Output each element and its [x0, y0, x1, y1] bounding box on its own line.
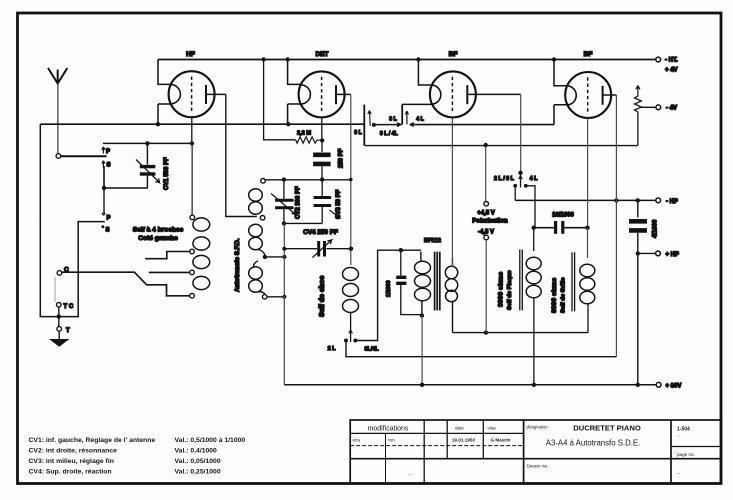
svg-text:3000 ohms: 3000 ohms	[498, 272, 505, 307]
svg-text:- HT.: - HT.	[665, 58, 678, 64]
wire +80V rail	[284, 384, 656, 386]
svg-text:CV4: Sup. droite, réaction: CV4: Sup. droite, réaction	[29, 469, 112, 476]
wire tap2 throw	[149, 271, 190, 273]
svg-text:8000 ohms: 8000 ohms	[551, 278, 558, 313]
svg-text:T: T	[66, 328, 70, 334]
svg-text:3L/4L: 3L/4L	[364, 347, 379, 353]
wire antenna to S contact	[61, 155, 107, 157]
contact S	[102, 161, 111, 169]
svg-text:2,2 M: 2,2 M	[297, 131, 311, 137]
svg-text:BF112: BF112	[424, 238, 441, 244]
terminal -4V	[656, 105, 661, 110]
svg-text:DUCRETET PIANO: DUCRETET PIANO	[573, 424, 641, 433]
svg-text:....: ....	[408, 471, 413, 476]
svg-text:250 PF: 250 PF	[339, 148, 345, 168]
node CV2 bottom junction	[282, 221, 286, 225]
terminal -HT	[656, 57, 661, 62]
terminal T C mid	[57, 303, 74, 317]
svg-text:Autotransfo S.F.D.: Autotransfo S.F.D.	[234, 238, 241, 292]
svg-text:1/1000: 1/1000	[386, 281, 392, 298]
svg-text:Val.: 0,4/1000: Val.: 0,4/1000	[175, 448, 218, 455]
svg-text:+ HP: + HP	[666, 252, 680, 258]
node +HP junction	[636, 251, 640, 255]
wire BF2 plate drop to -HP and HP return	[615, 95, 617, 357]
svg-text:Self de choc: Self de choc	[319, 276, 326, 317]
svg-text:4 L: 4 L	[530, 176, 538, 182]
tube BF2	[554, 51, 616, 125]
contact P lower	[102, 213, 110, 222]
wire tap1 throw	[145, 252, 190, 259]
capacitor CV3 50 PF	[314, 180, 343, 224]
svg-text:BF: BF	[449, 51, 458, 58]
node mid tap / CV2 column junction	[282, 255, 286, 259]
node bias bus junction	[484, 330, 488, 334]
svg-text:10/1000: 10/1000	[552, 213, 574, 219]
wire BF1 plate drop	[520, 94, 522, 172]
wire down to second P contact	[103, 188, 105, 214]
node choke on +80V rail	[532, 383, 536, 387]
svg-text:Dessin no.: Dessin no.	[527, 464, 549, 469]
svg-text:2 L: 2 L	[328, 346, 336, 352]
node BF112 primary bottom junction	[420, 313, 424, 317]
svg-text:P: P	[106, 149, 110, 155]
svg-text:T C: T C	[64, 304, 74, 310]
svg-text:...: ...	[677, 432, 680, 437]
svg-text:+4,5 V: +4,5 V	[477, 211, 495, 217]
svg-text:3 L: 3 L	[354, 130, 362, 136]
node +HP column on +80V rail	[636, 383, 640, 387]
capacitor CV4 250 PF	[284, 229, 351, 258]
svg-text:modifications: modifications	[368, 426, 409, 433]
wire C to switch arm	[62, 272, 190, 296]
svg-text:S: S	[107, 163, 111, 169]
filament switch cluster A	[354, 105, 401, 146]
node BF112 primary on +80V rail	[420, 383, 424, 387]
node CV1 bottom junction	[102, 186, 106, 190]
capacitor CV2 300 PF	[271, 180, 302, 224]
wire filament rail right segment	[410, 124, 555, 126]
node CV4 right junction on DET plate line	[349, 247, 353, 251]
wire S column down to CV1 bottom	[104, 166, 148, 188]
secondary winding	[452, 258, 454, 267]
tube HF	[158, 51, 226, 143]
wire grid-bias bus (y=332.6)	[453, 332, 589, 334]
wire bottom filament rail left segment	[40, 123, 364, 125]
antenna terminal node	[56, 154, 61, 159]
wire HF plate drop	[226, 94, 257, 216]
svg-text:Coté gauche: Coté gauche	[138, 235, 178, 242]
node 2L contact	[344, 339, 348, 343]
core	[435, 252, 440, 311]
tube BF1	[402, 51, 521, 117]
svg-text:Self à 4 broches: Self à 4 broches	[133, 227, 184, 234]
svg-text:4/1000: 4/1000	[653, 219, 659, 238]
wire tuned circuit top (y=179.5)	[266, 179, 351, 181]
node rail dots bottom	[156, 122, 160, 126]
choke 3000 ohms self de plaque	[498, 228, 542, 385]
capacitor CV1 500 PF	[136, 143, 170, 190]
svg-text:CV2: int droite, résonnance: CV2: int droite, résonnance	[29, 448, 118, 455]
svg-text:eza: eza	[353, 438, 361, 443]
polarisation battery tap	[472, 145, 508, 333]
node BF2 plate on -HP rail	[614, 198, 618, 202]
svg-text:Polarisation: Polarisation	[472, 218, 508, 225]
node TC junction	[57, 314, 61, 318]
svg-text:P: P	[107, 216, 111, 222]
wire CV2/CV3 bottom bus	[284, 222, 322, 224]
svg-text:+ 4V: + 4V	[665, 68, 678, 74]
terminal C	[57, 267, 69, 276]
svg-text:Self de Grille: Self de Grille	[561, 277, 567, 313]
wire bottom tap to CV2 column	[267, 296, 284, 298]
svg-text:ron: ron	[388, 438, 395, 443]
antenna	[48, 68, 67, 153]
wire BF1 grid line	[451, 117, 453, 267]
node CV1 top	[145, 141, 149, 145]
node BF112 primary top junction	[399, 248, 403, 252]
wire grid-leak feed from top rail	[264, 60, 296, 140]
svg-text:- HP: - HP	[666, 199, 678, 205]
svg-text:BF: BF	[584, 51, 593, 58]
svg-text:G Maurin: G Maurin	[491, 438, 511, 443]
svg-text:Val.: 0,25/1000: Val.: 0,25/1000	[175, 469, 221, 476]
node 4/1000 top on -HP rail	[636, 198, 640, 202]
wire HF grid line left (y=143.4)	[103, 142, 192, 144]
terminal T	[57, 317, 70, 334]
svg-text:19.01.1953: 19.01.1953	[452, 438, 475, 443]
svg-text:3 L: 3 L	[389, 117, 397, 123]
capacitor 10/1000	[534, 213, 588, 234]
svg-text:Val.: 0,05/1000: Val.: 0,05/1000	[175, 458, 221, 465]
svg-text:CV4 250 PF: CV4 250 PF	[303, 229, 338, 236]
node top rail junctions	[261, 57, 265, 61]
choke 8000 ohms self de grille	[551, 228, 595, 333]
svg-text:visa: visa	[488, 426, 497, 431]
tube DET	[288, 51, 351, 140]
transformer BF112	[386, 238, 458, 333]
capacitor 250 PF	[313, 142, 344, 179]
capacitor 4/1000	[629, 200, 659, 384]
wire CV2 column down to +80V rail	[283, 223, 285, 384]
wire mid tap to CV2 column	[265, 256, 285, 258]
wire rheostat feed (y=145)	[365, 145, 638, 147]
svg-text:2 L / 3 L: 2 L / 3 L	[494, 176, 515, 182]
ground	[49, 331, 70, 347]
coil L1 (self à 4 broches)	[190, 146, 210, 299]
wire DET plate line down	[350, 94, 352, 265]
title block	[350, 420, 721, 484]
svg-text:date: date	[455, 426, 464, 431]
rheostat -4V	[635, 86, 656, 146]
wire BF2 grid down	[587, 118, 589, 226]
svg-text:3 L / 4L: 3 L / 4L	[380, 131, 399, 137]
wire 3L/4L contact up to BF112 primary	[355, 250, 421, 340]
node 10/1000 left junction	[532, 226, 536, 230]
svg-text:CV1: inf. gauche, Réglage de l: CV1: inf. gauche, Réglage de l' antenne	[29, 437, 156, 444]
svg-text:...: ...	[677, 470, 681, 475]
svg-text:CV3: int milieu, réglage fin: CV3: int milieu, réglage fin	[29, 458, 114, 465]
svg-text:DET: DET	[316, 51, 329, 58]
svg-text:Val.: 0,5/1000 à 1/1000: Val.: 0,5/1000 à 1/1000	[175, 437, 246, 444]
coil self de choc	[319, 268, 359, 343]
primary winding	[420, 252, 422, 261]
coil autotransfo S.F.D.	[234, 179, 267, 300]
node autotransfo mid tap	[263, 255, 267, 259]
terminal -HP	[656, 198, 661, 203]
faint wire C to TC	[54, 277, 56, 302]
wire -HP rail	[515, 199, 656, 201]
terminal +80V	[656, 382, 661, 387]
contact P (antenna coil primary top)	[102, 147, 110, 155]
svg-text:CV3 50 PF: CV3 50 PF	[336, 189, 342, 219]
svg-text:S: S	[106, 228, 110, 234]
svg-text:Self de Plaque: Self de Plaque	[507, 270, 513, 310]
wire left drop to TC node	[40, 124, 105, 316]
svg-text:CV2 300 PF: CV2 300 PF	[296, 186, 302, 219]
filament switch cluster B	[389, 104, 424, 124]
node DET grid leak junction	[320, 138, 324, 142]
svg-text:- 4V: - 4V	[666, 106, 677, 112]
svg-text:4 L: 4 L	[416, 117, 424, 123]
terminal +HP	[656, 251, 661, 256]
svg-text:A3-A4 à Autotransfo S.D.E.: A3-A4 à Autotransfo S.D.E.	[546, 439, 640, 448]
resistor 2,2M	[296, 131, 323, 144]
node bias tap junction	[484, 143, 488, 147]
legend CV1-CV4	[29, 437, 246, 476]
node CV4 left junction	[282, 247, 286, 251]
node HF grid junction	[190, 141, 194, 145]
svg-text:CV1 500 PF: CV1 500 PF	[164, 157, 170, 190]
contact S lower	[101, 225, 109, 233]
wire primary bottom to +80V rail	[421, 316, 423, 385]
wire top rail	[158, 59, 656, 61]
node bottom tap / CV2 column junction	[282, 295, 286, 299]
svg-text:désignation: désignation	[526, 425, 548, 430]
wire HF grid down to coil	[191, 143, 193, 215]
svg-text:+ 80V: + 80V	[666, 383, 682, 389]
svg-text:HF: HF	[186, 51, 195, 58]
switch 2L/3L - 4L	[494, 171, 538, 228]
svg-text:page no.: page no.	[677, 452, 695, 457]
wire 2L to HP return	[346, 341, 616, 357]
node 10/1000 right junction on BF2 grid line	[585, 226, 589, 230]
